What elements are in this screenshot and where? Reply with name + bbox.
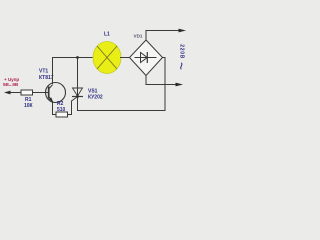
label R2 510 [57,101,66,113]
resistor R1 [21,90,33,95]
svg-text:КТ817: КТ817 [39,75,54,81]
label 220V AC [178,44,184,69]
wire bridge top to AC terminal [146,29,186,40]
svg-text:10К: 10К [24,103,34,109]
thyristor VS1 [72,58,83,98]
svg-text:VD1: VD1 [134,34,143,39]
control input arrow [4,91,21,95]
wire emitter down [53,102,57,115]
svg-text:L1: L1 [104,32,110,38]
svg-text:VT1: VT1 [39,69,48,75]
resistor R2 [56,112,68,117]
lamp L1 [93,42,121,74]
wire lamp to bridge [120,57,130,59]
svg-text:КУ202: КУ202 [88,95,103,101]
wire R1 to base [33,92,49,94]
bridge rectifier VD1 [130,40,163,76]
label R1 10K [24,97,34,109]
wire collector to top rail [53,58,94,85]
wire cathode to bottom rail [78,58,166,111]
svg-text:5В...9В: 5В...9В [3,82,19,87]
wire R2 to gate [68,97,78,115]
wire bridge bottom to AC terminal [146,76,183,87]
label L1 [104,32,110,38]
transistor Q1 VT1 [46,83,66,103]
label +Uupr 5V..9V [3,77,19,87]
label VS1 KU202 [88,89,103,101]
label VD1 [134,34,143,39]
svg-text:510: 510 [57,107,66,113]
node A: anode junction [76,56,79,59]
svg-text:220В: 220В [178,44,184,59]
label VT1 KT817 [39,69,54,82]
